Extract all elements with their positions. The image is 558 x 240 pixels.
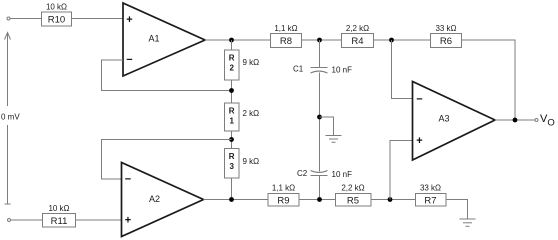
svg-text:A1: A1 (148, 34, 159, 44)
resistor R8 (271, 24, 302, 48)
node A2 out (229, 197, 234, 202)
wire R7 to ground (446, 200, 468, 220)
wire R3 to bottom row (231, 178, 233, 200)
wire node R4 to A3 inverting input (392, 40, 413, 99)
svg-text:1: 1 (229, 116, 234, 125)
svg-text:10 kΩ: 10 kΩ (48, 204, 69, 213)
node after R8 (317, 38, 322, 43)
resistor R7 (416, 184, 447, 207)
capacitor C2 (297, 169, 352, 179)
resistor R10 (42, 3, 72, 27)
capacitor C1 (293, 65, 352, 75)
resistor R2 (225, 50, 260, 80)
ground right (460, 219, 476, 226)
svg-text:C2: C2 (297, 169, 308, 178)
wire R10 to A1 + (72, 18, 124, 20)
svg-text:A3: A3 (438, 114, 449, 124)
svg-text:1,1 kΩ: 1,1 kΩ (272, 184, 295, 193)
wire terminal to R10 (11, 18, 42, 20)
svg-text:R4: R4 (351, 36, 363, 47)
wire A1 feedback (102, 60, 232, 91)
wire A2 output (204, 199, 269, 201)
wire R11 to A2 + (76, 219, 122, 221)
svg-text:VO: VO (540, 113, 555, 129)
resistor R1 (225, 103, 260, 131)
wire R1 to junction 2 (231, 131, 233, 149)
wire R8 to R4 (302, 39, 342, 41)
resistor R3 (225, 149, 260, 179)
resistor R6 (431, 24, 462, 48)
node A1 out (229, 38, 234, 43)
svg-text:R6: R6 (440, 36, 452, 47)
svg-text:2,2 kΩ: 2,2 kΩ (346, 24, 369, 33)
node after R9 (317, 197, 322, 202)
junction feedback A1 (229, 88, 234, 93)
svg-text:10 nF: 10 nF (332, 170, 353, 179)
ground middle (326, 136, 342, 143)
svg-text:10 nF: 10 nF (332, 66, 353, 75)
svg-text:A2: A2 (149, 194, 160, 204)
svg-text:2 kΩ: 2 kΩ (243, 109, 260, 118)
svg-text:R8: R8 (280, 36, 292, 47)
svg-text:R: R (229, 107, 235, 116)
svg-text:R10: R10 (48, 15, 65, 26)
svg-text:+: + (126, 14, 132, 26)
wire node R5 to A3 non-inverting input (390, 141, 413, 200)
wire A1 output (205, 39, 271, 41)
junction feedback A2 (229, 137, 234, 142)
node after R5 (388, 197, 393, 202)
svg-text:R9: R9 (277, 196, 289, 207)
wire A2 feedback (102, 140, 232, 180)
svg-text:2: 2 (229, 63, 234, 72)
wire A3 output (495, 119, 535, 121)
svg-text:3: 3 (229, 162, 234, 171)
svg-text:−: − (125, 174, 131, 186)
svg-text:R: R (229, 54, 235, 63)
op-amp A2 (122, 163, 204, 237)
svg-text:C1: C1 (293, 65, 304, 74)
svg-text:−: − (416, 94, 422, 106)
svg-text:9 kΩ: 9 kΩ (243, 157, 260, 166)
resistor R11 (43, 204, 76, 227)
svg-text:2,2 kΩ: 2,2 kΩ (341, 184, 364, 193)
node output (513, 118, 518, 123)
svg-text:9 kΩ: 9 kΩ (243, 58, 260, 67)
svg-text:33 kΩ: 33 kΩ (435, 24, 456, 33)
input terminal top (7, 17, 10, 20)
svg-text:33 kΩ: 33 kΩ (420, 184, 441, 193)
svg-text:+: + (416, 135, 422, 147)
svg-text:−: − (126, 54, 132, 66)
capacitor branch wire top (319, 40, 321, 68)
wire R9 to R5 (299, 199, 336, 201)
wire terminal to R11 (11, 219, 43, 221)
svg-text:R: R (229, 152, 235, 161)
wire junction to ground (320, 117, 334, 136)
junction between capacitors (317, 115, 322, 120)
input terminal bottom (8, 219, 11, 222)
wire R4 to R6 (374, 39, 431, 41)
wire node to R2 (231, 40, 233, 50)
svg-text:R7: R7 (424, 196, 436, 207)
op-amp A3 (413, 82, 496, 161)
op-amp A1 (123, 3, 205, 76)
output terminal (535, 119, 538, 122)
wire R6 to output feedback (462, 40, 516, 120)
svg-text:1,1 kΩ: 1,1 kΩ (274, 24, 297, 33)
svg-text:10 kΩ: 10 kΩ (46, 3, 67, 12)
resistor R5 (336, 184, 372, 207)
svg-text:0 mV: 0 mV (1, 113, 20, 122)
source arrow 0 mV (1, 33, 20, 205)
svg-text:+: + (125, 215, 131, 227)
resistor R9 (268, 184, 299, 207)
svg-text:R11: R11 (51, 216, 68, 227)
wire C1 to junction (319, 73, 321, 172)
wire R5 to R7 (371, 199, 416, 201)
node after R4 (389, 38, 394, 43)
wire R2 to junction (231, 80, 233, 103)
wire C2 to bottom row (319, 176, 321, 200)
svg-text:R5: R5 (347, 196, 359, 207)
resistor R4 (342, 24, 374, 48)
